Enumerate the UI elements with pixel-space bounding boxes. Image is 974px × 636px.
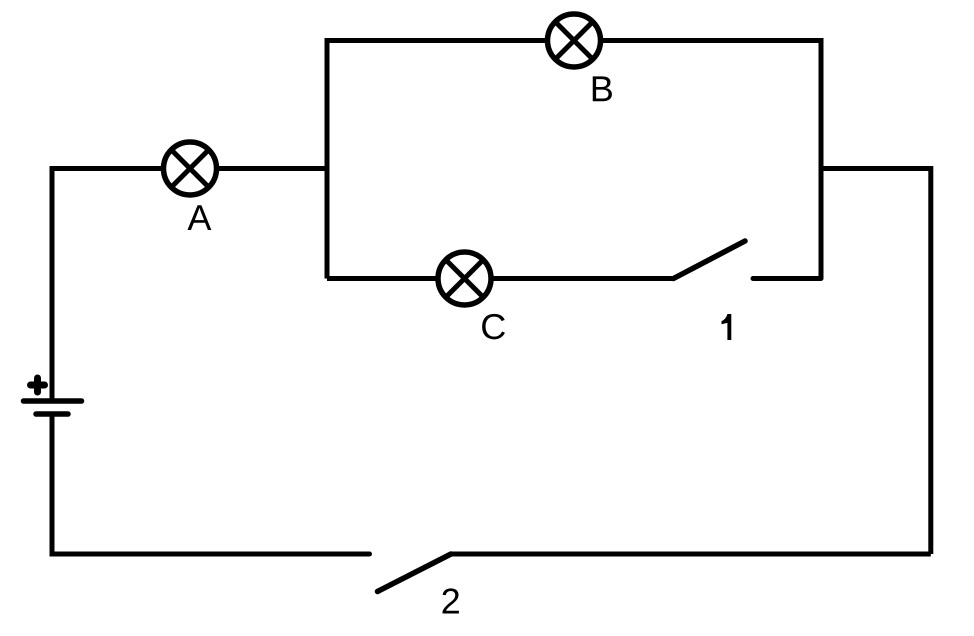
wire: bottom right segment from switch 2 to right vertical — [451, 552, 931, 557]
label 2 — [443, 588, 459, 613]
switch 1 blade (open, pivot at left end of bottom-branch wire) — [674, 241, 746, 279]
switch 2 blade (open, hangs down-left from right wire) — [378, 554, 452, 592]
wire: bottom left segment from battery leg to switch 2 gap — [52, 414, 370, 554]
wire: bottom branch from left vertical to switch 1 pivot — [327, 276, 674, 281]
battery negative short plate — [36, 411, 68, 417]
lamp B — [548, 14, 601, 67]
label B — [593, 76, 612, 101]
label 1 — [722, 314, 732, 340]
lamp A — [164, 142, 217, 195]
wire: left vertical from top-left corner down to battery positive plate — [52, 169, 327, 402]
battery plus sign — [31, 378, 45, 392]
wire: middle horizontal from parallel block to right vertical — [821, 169, 931, 555]
battery positive long plate — [24, 398, 82, 404]
label C — [482, 314, 505, 339]
label A — [187, 205, 211, 230]
lamp C — [438, 252, 491, 305]
wire: switch 1 right contact stub to right vertical of block — [753, 276, 821, 281]
wire: parallel block outline (left vertical, top branch, right vertical, bottom branch to switch 1 pivot) — [327, 41, 821, 279]
